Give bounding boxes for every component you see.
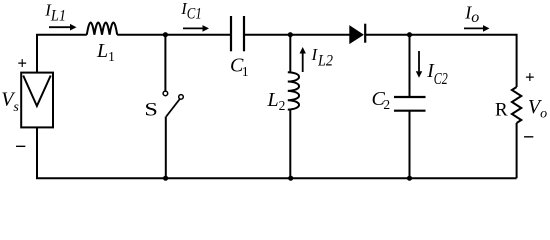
svg-text:L2: L2 bbox=[267, 89, 286, 113]
wire: L1 to capacitor C1 left plate bbox=[117, 34, 231, 36]
svg-text:C1: C1 bbox=[230, 54, 249, 78]
wire: C1 right plate to diode anode bbox=[244, 34, 350, 36]
wire: resistor bottom lead bbox=[516, 123, 518, 178]
diode D bbox=[350, 24, 365, 44]
svg-text:IL1: IL1 bbox=[44, 1, 66, 25]
switch S contact circle top bbox=[163, 91, 168, 96]
wire: L2 bottom lead bbox=[289, 110, 291, 178]
inductor L1 bbox=[87, 22, 117, 34]
svg-text:−: − bbox=[523, 126, 534, 148]
current arrow IL2 bbox=[300, 47, 306, 72]
current arrow Io bbox=[464, 25, 490, 32]
svg-text:Io: Io bbox=[464, 2, 479, 26]
label S bbox=[144, 99, 158, 120]
switch S blade bbox=[166, 99, 180, 117]
wire: switch bottom lead bbox=[165, 117, 167, 179]
node: switch top junction bbox=[163, 32, 168, 37]
PV source Vs chevron bbox=[23, 76, 51, 107]
wire: bottom rail and source bottom lead bbox=[37, 127, 517, 178]
capacitor C2 bbox=[394, 97, 426, 111]
inductor L2 coil bbox=[288, 72, 299, 109]
svg-text:S: S bbox=[144, 99, 158, 120]
current arrow IC1 bbox=[183, 25, 209, 32]
svg-text:IL2: IL2 bbox=[311, 45, 333, 70]
switch S blade circle bbox=[179, 95, 184, 100]
PV source Vs rectangle bbox=[21, 73, 53, 128]
svg-text:Vs: Vs bbox=[1, 89, 19, 116]
node: L2 top junction bbox=[288, 32, 293, 37]
resistor R zigzag bbox=[512, 87, 521, 123]
current arrow IL1 bbox=[49, 24, 77, 31]
svg-text:IC1: IC1 bbox=[180, 0, 202, 23]
svg-text:R: R bbox=[495, 99, 508, 120]
wire: diode cathode to top-right corner and down to resistor R bbox=[365, 35, 516, 87]
wire: C2 top lead bbox=[409, 35, 411, 97]
wire: C2 bottom lead bbox=[409, 111, 411, 178]
capacitor C1 bbox=[231, 16, 244, 51]
node: C2 top junction bbox=[407, 32, 412, 37]
svg-text:+: + bbox=[17, 54, 27, 73]
svg-text:C2: C2 bbox=[372, 88, 391, 112]
wire: L2 top lead bbox=[289, 35, 291, 72]
node: C2 bottom junction bbox=[407, 176, 412, 181]
svg-text:L1: L1 bbox=[96, 40, 115, 64]
node: switch bottom junction bbox=[163, 176, 168, 181]
wire: switch top lead bbox=[164, 35, 166, 91]
svg-text:IC2: IC2 bbox=[426, 61, 448, 88]
node: L2 bottom junction bbox=[288, 176, 293, 181]
current arrow IC2 bbox=[416, 51, 422, 78]
svg-text:Vo: Vo bbox=[528, 96, 547, 122]
svg-text:+: + bbox=[525, 68, 535, 87]
wire: source top lead and top-left corner to L1 bbox=[37, 35, 87, 73]
svg-text:−: − bbox=[15, 136, 26, 158]
